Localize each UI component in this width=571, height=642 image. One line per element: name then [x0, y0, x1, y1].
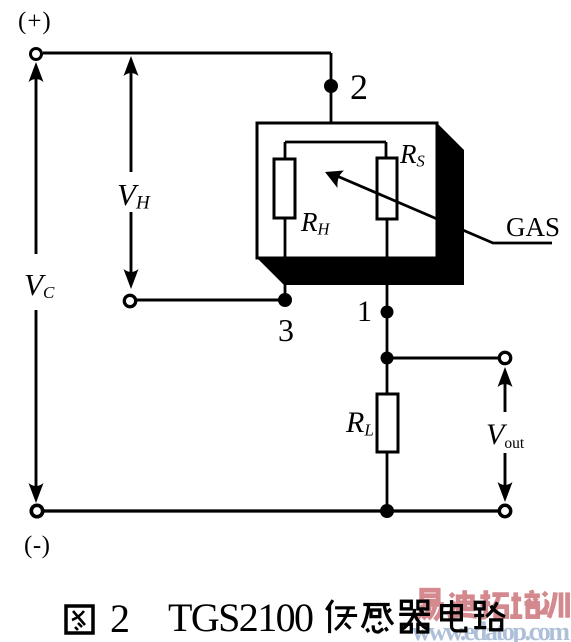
svg-text:GAS: GAS — [506, 212, 560, 242]
resistor RL — [377, 394, 398, 452]
wire RH top stub — [284, 142, 287, 160]
VH arrow line upper — [130, 62, 133, 172]
caption glyph QI — [399, 601, 430, 632]
VH arrowhead down — [124, 269, 139, 289]
wire RS top stub — [385, 142, 388, 159]
wire node2 vertical — [330, 53, 333, 142]
VH arrow line lower — [130, 212, 133, 282]
sensor body front face — [257, 123, 437, 258]
GAS arrowhead — [325, 171, 344, 189]
watermark red glyph XUN — [542, 592, 567, 617]
VC arrowhead down — [29, 483, 44, 503]
resistor RS — [377, 158, 397, 219]
sensor body 3D black side — [257, 123, 464, 285]
watermark red glyph YI — [417, 590, 441, 620]
svg-text:2: 2 — [350, 67, 368, 107]
wire RL bottom lead — [386, 452, 389, 511]
Vout arrowhead down — [498, 482, 513, 502]
wire inner top horizontal — [285, 141, 386, 144]
wire RS bottom lead to node 1 — [386, 219, 389, 358]
caption glyph GAN — [362, 605, 393, 633]
watermark red glyph PEI — [510, 590, 540, 616]
caption figure number glyph TU — [66, 606, 93, 633]
junction dot bottom — [380, 504, 394, 518]
terminal Vout bottom open circle — [499, 505, 510, 516]
terminal Vout top open circle — [499, 352, 510, 363]
GAS arrow line — [337, 176, 552, 243]
node 3 junction dot — [278, 293, 292, 307]
wire tap horizontal to Vout terminal — [387, 357, 499, 360]
VH arrowhead up — [124, 56, 139, 76]
svg-text:TGS2100: TGS2100 — [168, 595, 314, 640]
caption glyph LU — [474, 602, 505, 630]
VC arrow line lower — [35, 310, 38, 492]
resistor RH — [274, 159, 295, 218]
caption glyph DIAN — [442, 600, 466, 631]
caption glyph CHUAN — [326, 600, 357, 633]
node 2 junction dot — [324, 79, 338, 93]
junction dot at Vout tap — [381, 352, 394, 365]
svg-text:3: 3 — [278, 312, 294, 348]
watermark red glyph TUO — [480, 590, 509, 617]
wire top horizontal — [43, 52, 331, 55]
svg-text:(+): (+) — [18, 8, 52, 35]
terminal (+) open circle — [31, 49, 42, 60]
wire VH circle to node 3 — [136, 299, 285, 302]
svg-text:1: 1 — [357, 295, 372, 328]
terminal (-) open circle — [31, 505, 42, 516]
svg-text:(-): (-) — [24, 532, 50, 559]
Vout arrow line lower — [504, 453, 507, 494]
Vout arrow line upper — [504, 378, 507, 412]
svg-text:2: 2 — [110, 596, 130, 641]
watermark red glyph DI — [448, 590, 477, 618]
Vout arrowhead up — [498, 367, 513, 387]
wire RH bottom lead to node 3 — [284, 218, 287, 300]
VC arrowhead up — [29, 62, 44, 82]
wire bottom horizontal — [43, 509, 499, 512]
terminal VH bottom open circle — [124, 295, 135, 306]
VC arrow line upper — [35, 72, 38, 254]
node 1 junction dot — [381, 306, 394, 319]
wire node1 to RL — [386, 358, 389, 394]
